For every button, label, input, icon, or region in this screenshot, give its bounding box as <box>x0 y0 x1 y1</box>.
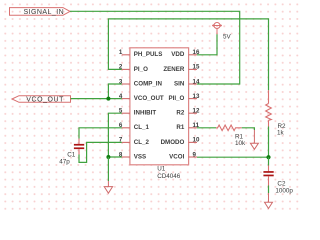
svg-text:VCO_OUT: VCO_OUT <box>26 97 64 104</box>
pin 12 R2 <box>176 108 200 117</box>
svg-text:ZENER: ZENER <box>163 66 185 73</box>
wire pin 11 to R1 <box>197 127 216 129</box>
svg-text:VCO_OUT: VCO_OUT <box>134 95 164 102</box>
wire VCO_OUT to pin 4 <box>71 98 122 100</box>
wire pin 3 to node A <box>108 84 121 99</box>
svg-text:VDD: VDD <box>171 51 185 58</box>
resistor R1 10k <box>216 125 246 147</box>
resistor R2 1k <box>266 90 286 136</box>
wire pin 6 to C1 top <box>79 128 122 139</box>
svg-text:47p: 47p <box>59 158 70 165</box>
svg-text:PI_O: PI_O <box>134 66 148 73</box>
pin 2 PI_O <box>119 64 148 73</box>
hierarchical label VCO_OUT <box>12 96 71 104</box>
pin 8 VSS <box>119 151 146 160</box>
capacitor C2 1000p <box>263 166 293 195</box>
ground under IC <box>104 181 112 193</box>
svg-text:C2: C2 <box>277 180 286 187</box>
svg-text:PII_O: PII_O <box>168 95 184 102</box>
wire node B to ground <box>107 157 109 181</box>
svg-text:PH_PULS: PH_PULS <box>134 51 163 58</box>
hierarchical label SIGNAL_IN <box>10 8 71 16</box>
svg-text:DMODO: DMODO <box>161 139 185 146</box>
pin 3 COMP_IN <box>119 78 163 87</box>
svg-text:C1: C1 <box>67 151 76 158</box>
svg-text:10: 10 <box>193 137 200 144</box>
pin 15 ZENER <box>163 64 200 73</box>
node C junction <box>266 155 270 159</box>
pin 5 INHIBIT <box>119 108 157 117</box>
pin 10 DMODO <box>161 137 200 146</box>
pin 11 R1 <box>176 122 199 131</box>
svg-text:R2: R2 <box>176 110 184 117</box>
svg-text:10k: 10k <box>235 140 246 147</box>
svg-text:2: 2 <box>119 64 123 71</box>
wire pin 9 VCOI to node C <box>197 156 269 158</box>
IC U1 CD4046 body <box>130 48 189 165</box>
svg-text:13: 13 <box>193 93 200 100</box>
wire R1 to ground <box>242 128 255 130</box>
svg-text:VCOI: VCOI <box>169 153 184 160</box>
pin 1 PH_PULS <box>119 49 163 58</box>
pin 6 CL_1 <box>119 122 150 131</box>
svg-text:CL_2: CL_2 <box>134 139 150 146</box>
svg-text:INHIBIT: INHIBIT <box>134 110 157 117</box>
svg-text:SIGNAL_IN: SIGNAL_IN <box>24 9 65 16</box>
svg-text:COMP_IN: COMP_IN <box>134 80 163 87</box>
svg-text:SIN: SIN <box>174 80 185 87</box>
svg-text:12: 12 <box>193 108 200 115</box>
pin 14 SIN <box>174 78 200 87</box>
svg-text:15: 15 <box>193 64 200 71</box>
wire node C to C2 <box>268 157 270 165</box>
node A junction <box>106 97 110 101</box>
pin 4 VCO_OUT <box>119 93 164 102</box>
pin 13 PII_O <box>168 93 199 102</box>
wire pin 5 to node B <box>108 113 121 157</box>
svg-text:CL_1: CL_1 <box>134 124 150 131</box>
capacitor C1 47p <box>59 139 84 166</box>
svg-text:16: 16 <box>193 49 200 56</box>
wire SIGNAL_IN to SIN pin 14 <box>70 11 240 84</box>
svg-text:CD4046: CD4046 <box>157 173 181 180</box>
pin 16 VDD <box>171 49 200 58</box>
svg-text:1k: 1k <box>277 129 285 136</box>
ground at R1 <box>250 130 258 149</box>
ground at C2 <box>265 193 273 209</box>
svg-text:9: 9 <box>193 151 197 158</box>
power symbol 5V <box>212 23 231 41</box>
wire C1 bottom to pin 7 <box>79 142 122 162</box>
wire C2 to ground <box>268 186 270 194</box>
wire R2 bottom to node C <box>268 127 270 158</box>
wire PI_O pin 2 to R2 top <box>108 19 268 90</box>
svg-text:1000p: 1000p <box>275 187 293 194</box>
svg-text:VSS: VSS <box>134 153 146 160</box>
svg-text:5V: 5V <box>223 34 232 41</box>
wire 5V to VDD pin 16 <box>197 34 217 55</box>
svg-text:1: 1 <box>119 49 123 56</box>
node B junction <box>106 155 110 159</box>
svg-text:14: 14 <box>193 78 200 85</box>
pin 7 CL_2 <box>119 137 150 146</box>
svg-text:R1: R1 <box>176 124 184 131</box>
svg-text:U1: U1 <box>157 165 166 172</box>
pin 9 VCOI <box>169 151 197 160</box>
